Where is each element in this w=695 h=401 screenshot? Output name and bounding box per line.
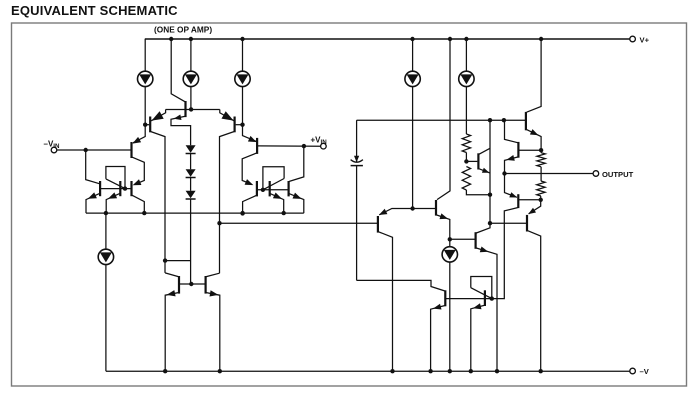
arrow Q22 emitter [433, 304, 442, 310]
arrow Q12 emitter [167, 290, 176, 296]
transistor Q7 base bar [130, 181, 132, 196]
wire mirror tie jog [165, 260, 191, 262]
wire Q12 emitter [165, 293, 178, 372]
node junction output [502, 171, 506, 175]
node junction railV-Q16 [495, 369, 499, 373]
wire Q16 base [450, 238, 475, 240]
diode D2 [186, 169, 196, 177]
node junction railV-Q21 [539, 369, 543, 373]
transistor Q13 base bar [205, 276, 207, 294]
node junction rail-I4 [410, 37, 414, 41]
transistor Q3 base bar [234, 117, 236, 133]
node junction left base rail [123, 186, 127, 190]
node junction Q20base-Q21 [539, 198, 543, 202]
transistor Q8 base bar [256, 138, 258, 154]
wire Q6 emitter [106, 194, 119, 214]
node junction busA-I6 [104, 211, 108, 215]
wire Q14 emitter [379, 209, 412, 215]
wire bus A [86, 212, 304, 214]
arrow Q18 emitter [506, 155, 515, 161]
wire Q18 collector [505, 120, 518, 143]
node junction busB [217, 221, 221, 225]
current source I4 [405, 71, 420, 86]
wire V+ rail [145, 38, 630, 40]
arrow Q17 emitter [530, 129, 539, 135]
wire Q1 base [145, 124, 149, 126]
node junction R1-R3-Q19base [464, 159, 468, 163]
node junction -VIN [84, 148, 88, 152]
node junction rail-Q15 [448, 37, 452, 41]
wire I4 bottom lead [412, 87, 414, 209]
wire right base rail [258, 189, 288, 191]
wire Q2 emitter [171, 116, 191, 145]
label OUTPUT [602, 170, 634, 179]
terminal -V [630, 368, 636, 374]
wire Q1 emitter jog [151, 110, 165, 121]
wire Q3 collector [220, 132, 234, 274]
arrow C1 lead [354, 156, 359, 163]
wire I4 top lead [412, 39, 414, 71]
wire Q4 collector [132, 157, 144, 184]
arrow Q23 emitter [473, 303, 482, 309]
wire Q16 collector [476, 120, 490, 233]
node junction +VIN [302, 144, 306, 148]
transistor Q6 base bar [119, 181, 121, 196]
transistor Q21 base bar [526, 215, 528, 232]
current source I7 [442, 247, 457, 262]
wire Q10 collector diode-tie box [263, 167, 284, 190]
wire C1 bottom lead [356, 166, 358, 281]
wire I5 top lead [465, 39, 467, 71]
diode D1 [186, 145, 196, 153]
wire Q17 emitter [527, 130, 542, 153]
wire R3 bottom lead [466, 190, 490, 195]
node junction rail-I5 [464, 37, 468, 41]
arrow Q13 emitter [210, 290, 219, 296]
wire left base rail [101, 188, 131, 190]
svg-text:V+: V+ [640, 35, 650, 44]
wire emitter line node B2 [166, 109, 220, 111]
resistor R3 [462, 167, 470, 191]
arrow Q8 emitter [248, 136, 257, 142]
node junction Q16 base feed [448, 237, 452, 241]
capacitor C1 flat plate [351, 165, 363, 167]
arrow Q16 emitter [480, 247, 489, 253]
transistor Q15 base bar [435, 200, 437, 216]
wire Q10 collector diagonal [263, 179, 284, 190]
transistor Q14 base bar [377, 216, 379, 233]
arrow Q7 emitter [133, 179, 142, 185]
node junction busA-Q10 [282, 211, 286, 215]
transistor Q10 base bar [269, 181, 271, 196]
node junction railV-Q23 [469, 369, 473, 373]
arrow Q5 emitter [88, 192, 97, 198]
node junction right base rail [261, 188, 265, 192]
transistor Q17 base bar [525, 112, 527, 130]
svg-text:(ONE OP AMP): (ONE OP AMP) [154, 25, 212, 35]
wire Q13 emitter [206, 293, 220, 372]
node junction railV-Q12 [163, 369, 167, 373]
current source I6 [98, 249, 113, 264]
arrow Q6 emitter [108, 192, 117, 198]
wire Q13 collector [206, 273, 219, 276]
wire Q7 collector [132, 195, 144, 213]
wire Q21 collector [528, 231, 541, 372]
arrow Q2 emitter [174, 115, 182, 121]
wire I1 bottom lead [144, 87, 146, 125]
node junction Q23 tie [490, 296, 494, 300]
wire Q2 collector [171, 39, 185, 102]
wire I3 top lead [242, 39, 244, 71]
node junction I4-Q14 [410, 206, 414, 210]
node junction bias-Q19 [488, 118, 492, 122]
wire Q22 collector [357, 280, 445, 291]
wire I5 bottom lead [465, 87, 467, 134]
wire Q9 collector [243, 196, 257, 214]
wire Q23 collector diagonal [471, 288, 492, 299]
wire I7 bottom lead [449, 262, 451, 371]
node junction busA-I3feed [240, 211, 244, 215]
arrow Q9 emitter [245, 179, 254, 185]
node junction railV-I7 [448, 369, 452, 373]
wire Q6 collector diagonal [106, 179, 125, 189]
wire Q18 base [519, 149, 541, 151]
wire Q4 emitter feed [133, 125, 145, 143]
diode D3 [186, 191, 196, 199]
wire Q15 base [413, 208, 435, 210]
terminal +VIN [321, 143, 327, 149]
transistor Q9 base bar [256, 181, 258, 196]
node junction Q16-R3 [488, 193, 492, 197]
label V+ [640, 35, 650, 44]
node junction rail-Q17 [539, 37, 543, 41]
wire Q19 emitter [479, 169, 490, 173]
wire +VIN [258, 145, 321, 147]
wire Q20 base [519, 199, 541, 201]
wire Q21 base [490, 222, 526, 224]
wire I1 top lead [144, 39, 146, 71]
wire Q11 collector [289, 146, 304, 181]
resistor R1 [462, 134, 470, 153]
transistor Q23 base bar [484, 290, 486, 306]
wire D1-D2 [190, 153, 192, 169]
label +VIN [311, 136, 328, 147]
wire Q19 collector [479, 148, 490, 154]
arrow Q11 emitter [293, 193, 302, 199]
transistor Q16 base bar [475, 232, 477, 249]
transistor Q18 base bar [517, 142, 519, 158]
wire Q3 emitter jog [220, 110, 234, 121]
resistor R4 [537, 181, 545, 196]
wire I2 bottom lead [190, 87, 192, 110]
arrow Q14 emitter [379, 209, 388, 215]
node junction rail-I1 [169, 37, 173, 41]
wire Q20 collector [446, 208, 518, 299]
wire Q18 emitter [505, 157, 518, 197]
wire Q15 emitter [437, 215, 450, 247]
wire Q19 base [466, 160, 477, 162]
transistor Q19 base bar [477, 153, 479, 169]
transistor Q11 base bar [288, 181, 290, 196]
node junction railV-Q22 [428, 369, 432, 373]
wire Q23 emitter [471, 305, 484, 371]
current source I1 [138, 71, 153, 86]
arrow Q1 emitter [152, 111, 164, 120]
transistor Q2 base bar [184, 101, 186, 117]
svg-text:–V: –V [640, 367, 650, 376]
wire output line [505, 173, 594, 175]
node junction Q17-Q18base [539, 148, 543, 152]
wire D2-D3 [190, 177, 192, 190]
wire mirror base line [180, 283, 205, 285]
wire Q17 collector [527, 39, 542, 112]
svg-text:+VIN: +VIN [311, 136, 328, 147]
wire bus B [220, 222, 378, 224]
wire I3 bottom lead [242, 87, 244, 125]
wire Q11 emitter [289, 194, 304, 213]
arrow Q15 emitter [440, 213, 449, 219]
arrow Q10 emitter [273, 193, 282, 199]
wire Q23 collector diode-tie box [471, 277, 492, 299]
node junction Q1 base [143, 123, 147, 127]
transistor Q12 base bar [178, 276, 180, 294]
node junction Q16-Q21base [488, 221, 492, 225]
wire Q15 collector [437, 39, 450, 200]
wire D3 to mirror [190, 199, 192, 284]
node junction rail-I3 [240, 37, 244, 41]
title [11, 3, 178, 18]
node junction Q3 base [240, 123, 244, 127]
transistor Q5 base bar [99, 181, 101, 196]
wire Q21 emitter [529, 200, 541, 214]
wire Q10 emitter [270, 194, 283, 213]
node junction rail-I2 [189, 37, 193, 41]
node junction Q12 collector tie [163, 258, 167, 262]
wire Q12 collector [165, 273, 178, 277]
wire C1 top lead [356, 120, 358, 162]
wire I6 top lead [105, 213, 107, 249]
resistor R2 [537, 153, 545, 167]
wire Q6 collector diode-tie box [106, 167, 125, 189]
arrow Q21 emitter [528, 208, 536, 214]
node junction railV-Q14 [390, 369, 394, 373]
transistor Q1 base bar [149, 117, 151, 133]
wire Q3 base [236, 124, 243, 126]
wire Q22 emitter [431, 306, 445, 372]
current source I5 [459, 71, 474, 86]
label -V [640, 367, 650, 376]
wire -V rail [106, 370, 630, 372]
transistor Q22 base bar [444, 290, 446, 306]
transistor Q20 base bar [517, 194, 519, 208]
arrow Q20 emitter [509, 192, 517, 197]
node junction bias-Q18 [502, 118, 506, 122]
wire R2-R4 link [540, 167, 542, 181]
wire R4 bottom lead [540, 196, 542, 200]
wire I6 bottom lead [105, 265, 107, 372]
label ONE OP AMP [154, 25, 212, 35]
node junction mirror base [189, 282, 193, 286]
wire Q8 collector [242, 153, 256, 184]
node junction Q7-busA [142, 211, 146, 215]
wire bias line [357, 119, 525, 121]
wire Q14 collector [379, 232, 393, 371]
wire Q5 collector [86, 150, 100, 184]
wire Q8 emitter feed [243, 125, 257, 142]
wire -VIN [57, 149, 131, 151]
wire Q16 emitter [476, 248, 497, 371]
label -VIN [44, 140, 61, 151]
node junction Q9-busA [240, 211, 244, 215]
svg-text:–VIN: –VIN [44, 140, 61, 151]
wire Q1 collector [151, 132, 165, 273]
terminal -VIN [51, 147, 57, 153]
transistor Q4 base bar [130, 142, 132, 158]
current source I2 [183, 71, 198, 86]
wire Q5 emitter [86, 194, 99, 214]
current source I3 [235, 71, 250, 86]
capacitor C1 curved plate [351, 160, 363, 163]
arrow Q19 emitter [482, 168, 490, 173]
wire I2 top lead [190, 39, 192, 71]
terminal V+ [630, 36, 636, 42]
terminal OUTPUT [593, 171, 599, 177]
svg-text:OUTPUT: OUTPUT [602, 170, 634, 179]
arrow Q3 emitter [222, 111, 234, 120]
node junction railV-Q13 [218, 369, 222, 373]
wire R1 bottom lead [465, 153, 467, 162]
node junction Q2-I2 [189, 107, 193, 111]
arrow Q4 emitter [132, 137, 141, 144]
